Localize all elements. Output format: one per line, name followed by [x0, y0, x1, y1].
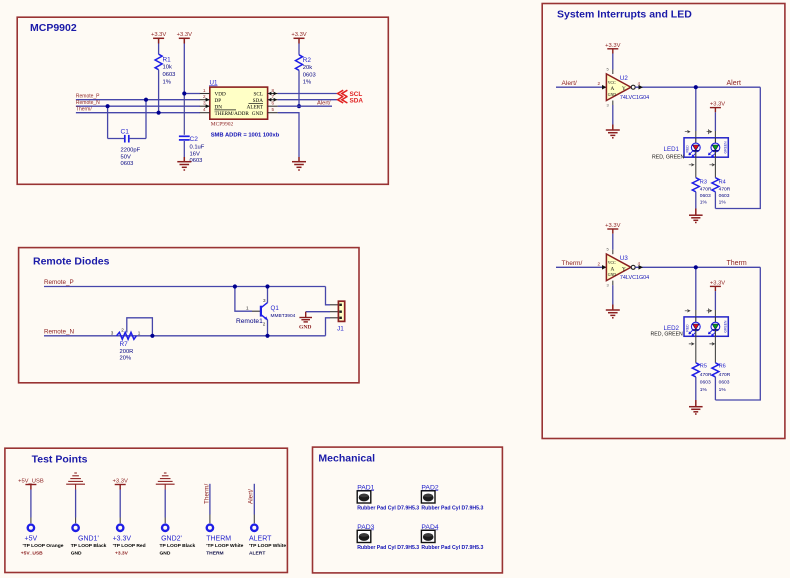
svg-text:+3.3V: +3.3V: [605, 43, 620, 49]
svg-text:GND: GND: [608, 93, 616, 97]
sheet Test Points box frame: [5, 448, 288, 572]
wire SCL: [278, 93, 338, 95]
test point ALERT: [251, 525, 257, 531]
wire TP5: [209, 484, 211, 515]
sheet MCP9902 box frame: [17, 17, 388, 184]
svg-text:0603: 0603: [700, 193, 711, 199]
junction Q1 collector-Remote_P: [265, 284, 269, 288]
svg-text:Y: Y: [622, 86, 626, 92]
junction Therm-LED2: [694, 265, 698, 269]
svg-text:+3.3V: +3.3V: [177, 32, 192, 38]
pin 2 lead: [200, 99, 210, 101]
power flag +3.3V (above U1 VDD / C2): [179, 38, 190, 43]
svg-text:2: 2: [121, 327, 124, 332]
svg-text:THERM: THERM: [206, 536, 231, 543]
svg-text:0603: 0603: [719, 379, 730, 385]
svg-text:VCC: VCC: [608, 81, 616, 85]
connector J1: [338, 301, 344, 321]
wire +3.3V to U2 VCC: [612, 54, 614, 70]
LED1 pin marks: [685, 129, 715, 166]
svg-text:A: A: [611, 86, 615, 92]
svg-text:R3: R3: [700, 179, 707, 185]
wire TP2: [75, 490, 77, 518]
svg-text:3: 3: [111, 330, 114, 335]
svg-text:Alert/: Alert/: [562, 80, 578, 87]
wire Remote_P: [44, 286, 326, 288]
wire pin5 GND: [278, 113, 299, 157]
inverter U2 74LVC1G04: [606, 74, 631, 101]
svg-text:20k: 20k: [303, 65, 312, 71]
junction VDD-3V3: [182, 91, 186, 95]
svg-text:GND: GND: [71, 551, 82, 557]
svg-text:SMB ADDR = 1001 100xb: SMB ADDR = 1001 100xb: [211, 132, 280, 138]
port SCL chevrons: [338, 90, 348, 97]
svg-text:+5V_USB: +5V_USB: [21, 551, 43, 557]
svg-text:50V: 50V: [121, 154, 131, 160]
svg-text:Alert/: Alert/: [317, 100, 331, 106]
test point THERM: [207, 525, 213, 531]
svg-text:0603: 0603: [719, 193, 730, 199]
LED2 RED,GREEN dual LED box: [684, 317, 728, 336]
junction R1-Therm: [157, 111, 161, 115]
ground (below U1 pin5): [292, 157, 306, 170]
pin 7 lead: [268, 99, 278, 101]
svg-text:Rubber Pad Cyl D7.9H5.3: Rubber Pad Cyl D7.9H5.3: [421, 505, 483, 511]
resistor R7 200R trimmer: [117, 332, 137, 339]
svg-text:TP LOOP Black: TP LOOP Black: [71, 543, 107, 549]
svg-text:GND: GND: [252, 111, 263, 117]
svg-text:470R: 470R: [719, 372, 731, 378]
resistor R6 470R: [714, 336, 716, 363]
test point +5V: [28, 525, 34, 531]
svg-text:LED1: LED1: [664, 146, 680, 153]
sheet Remote Diodes box frame: [19, 248, 359, 383]
port SDA chevrons: [338, 96, 348, 103]
svg-text:GND2': GND2': [161, 536, 182, 543]
svg-text:J1: J1: [337, 326, 344, 333]
wire U3 GND pin: [612, 281, 614, 286]
LED1 green element: [714, 138, 716, 144]
svg-text:Remote_N: Remote_N: [44, 328, 75, 335]
wire Therm/ to U1 pin4: [76, 112, 200, 114]
power flag GND earth (TP4): [156, 473, 175, 490]
LED1 RED,GREEN dual LED box: [684, 138, 728, 157]
wire +3.3V to U3 VCC: [612, 234, 614, 250]
svg-text:ALERT: ALERT: [249, 551, 265, 557]
svg-text:Mechanical: Mechanical: [318, 453, 375, 465]
svg-text:+3.3V: +3.3V: [151, 32, 166, 38]
svg-text:R2: R2: [303, 57, 312, 64]
svg-text:'TP LOOP White: 'TP LOOP White: [249, 543, 286, 549]
svg-text:+3.3V: +3.3V: [113, 536, 132, 543]
svg-text:2: 2: [598, 81, 601, 86]
svg-text:470R: 470R: [719, 186, 731, 192]
svg-text:74LVC1G04: 74LVC1G04: [620, 275, 649, 281]
IC U1 MCP9902 body: [210, 87, 268, 119]
svg-text:GND: GND: [299, 324, 311, 330]
svg-text:ALERT: ALERT: [249, 536, 272, 543]
svg-text:0603: 0603: [700, 379, 711, 385]
inverter U3 74LVC1G04: [606, 254, 631, 281]
svg-text:1%: 1%: [163, 79, 171, 85]
svg-text:TP LOOP Black: TP LOOP Black: [160, 543, 196, 549]
svg-text:16V: 16V: [190, 152, 200, 158]
pin 4 lead: [200, 112, 210, 114]
wire U3 output Therm: [635, 266, 760, 268]
wire TP4: [164, 490, 166, 518]
svg-text:Remote_N: Remote_N: [76, 100, 100, 106]
wire J1 pin2 to GND: [306, 311, 330, 313]
svg-text:C2: C2: [190, 136, 199, 143]
LED2 red element: [695, 317, 697, 323]
svg-text:470R: 470R: [700, 372, 712, 378]
svg-text:20%: 20%: [120, 356, 132, 362]
svg-text:U1: U1: [210, 80, 218, 87]
wire U2 GND pin: [612, 101, 614, 106]
resistor R4 470R: [714, 157, 716, 178]
wire TP1: [30, 490, 32, 518]
ground GND (J1 pin2): [299, 312, 312, 322]
svg-text:RED, GREEN: RED, GREEN: [651, 332, 684, 338]
test point GND2: [162, 525, 168, 531]
svg-text:0603: 0603: [121, 161, 134, 167]
svg-text:DN: DN: [215, 104, 223, 110]
pin 5 lead: [268, 112, 278, 114]
svg-text:SDA: SDA: [350, 97, 364, 104]
ground (below U2): [606, 125, 620, 138]
svg-text:R6: R6: [719, 364, 726, 370]
junction Alert-LED1: [694, 85, 698, 89]
wire Remote_N to U1 pin3: [76, 105, 200, 107]
wire Alert junction down to LED1: [695, 87, 697, 131]
capacitor C1 2200pF: [107, 106, 109, 138]
svg-text:Remote Diodes: Remote Diodes: [33, 256, 110, 268]
svg-text:4: 4: [638, 81, 641, 86]
svg-text:470R: 470R: [700, 186, 712, 192]
capacitor C2 0.1uF: [179, 135, 190, 137]
svg-text:1%: 1%: [700, 387, 708, 393]
ground (below R5): [689, 400, 703, 414]
svg-text:200R: 200R: [120, 349, 134, 355]
wire J1 pin1 to Remote_P: [326, 287, 331, 305]
power flag GND earth (TP2): [66, 473, 85, 490]
svg-text:R1: R1: [163, 57, 172, 64]
svg-text:A: A: [611, 266, 615, 272]
svg-text:RED: RED: [686, 324, 690, 332]
wire Remote_P to U1 pin2: [76, 99, 200, 101]
svg-text:0.1uF: 0.1uF: [190, 145, 205, 151]
svg-text:System Interrupts and LED: System Interrupts and LED: [557, 9, 692, 21]
junction Q1 emitter-Remote_N: [265, 334, 269, 338]
svg-text:2: 2: [203, 94, 206, 99]
wire right loop (Alert to R4): [715, 87, 760, 208]
ground (below C2): [177, 157, 191, 170]
resistor R3 470R: [695, 157, 697, 178]
svg-text:+3.3V: +3.3V: [291, 32, 306, 38]
svg-text:Therm: Therm: [727, 260, 747, 267]
svg-text:10k: 10k: [163, 65, 172, 71]
svg-text:4: 4: [203, 107, 206, 112]
wire TP6: [253, 484, 255, 515]
svg-text:Q1: Q1: [271, 305, 280, 312]
test point +3.3V: [117, 525, 123, 531]
svg-text:U2: U2: [620, 75, 628, 82]
svg-text:GND: GND: [608, 273, 616, 277]
svg-text:1%: 1%: [719, 387, 727, 393]
svg-text:C1: C1: [121, 129, 130, 136]
LED2 green element: [714, 317, 716, 323]
svg-text:0603: 0603: [303, 72, 316, 78]
svg-text:3: 3: [263, 298, 266, 303]
svg-text:RED, GREEN: RED, GREEN: [652, 155, 685, 161]
svg-text:GREEN: GREEN: [724, 141, 728, 154]
svg-text:GND: GND: [160, 551, 171, 557]
junction C1-Remote_P: [144, 98, 148, 102]
svg-text:'TP LOOP White: 'TP LOOP White: [206, 543, 243, 549]
wire Alert/ input: [556, 86, 606, 88]
svg-text:RED: RED: [686, 145, 690, 153]
wire +3.3V to U1 VDD: [183, 44, 185, 94]
svg-text:2200pF: 2200pF: [121, 148, 141, 154]
wire TP3: [119, 490, 121, 518]
svg-text:Remote_P: Remote_P: [44, 279, 74, 286]
svg-text:U3: U3: [620, 255, 628, 262]
svg-text:'TP LOOP Red: 'TP LOOP Red: [113, 543, 146, 549]
junction R7 wiper-Remote_N: [150, 334, 154, 338]
svg-text:+3.3V: +3.3V: [710, 102, 725, 108]
LED1 red element: [695, 138, 697, 144]
svg-text:6: 6: [272, 101, 275, 106]
svg-text:74LVC1G04: 74LVC1G04: [620, 95, 649, 101]
wire right loop (Therm to R6): [715, 267, 760, 400]
svg-text:VCC: VCC: [608, 261, 616, 265]
wire Remote_N: [44, 335, 326, 337]
svg-text:+3.3V: +3.3V: [115, 551, 129, 557]
svg-text:0603: 0603: [190, 158, 203, 164]
svg-text:GREEN: GREEN: [724, 320, 728, 333]
wire Remote_P to Q1 base: [235, 287, 252, 312]
resistor R2 20k: [298, 44, 300, 55]
junction Q1 base-Remote_P: [233, 284, 237, 288]
svg-text:ALERT: ALERT: [247, 104, 264, 110]
svg-text:Test Points: Test Points: [32, 454, 88, 466]
svg-text:R4: R4: [719, 179, 726, 185]
transistor Q1 MMBT3904: [260, 306, 262, 317]
svg-text:1: 1: [203, 88, 206, 93]
svg-text:2: 2: [598, 261, 601, 266]
pin 8 lead: [268, 93, 278, 95]
svg-text:+5V: +5V: [25, 536, 38, 543]
svg-text:'TP LOOP Orange: 'TP LOOP Orange: [23, 543, 64, 549]
svg-text:+5V_USB: +5V_USB: [18, 479, 44, 485]
svg-text:MCP9902: MCP9902: [211, 121, 234, 127]
svg-text:MMBT3904: MMBT3904: [271, 313, 296, 319]
svg-text:Remote_P: Remote_P: [76, 94, 100, 100]
svg-text:Alert/: Alert/: [248, 489, 255, 504]
svg-text:+3.3V: +3.3V: [710, 280, 725, 286]
svg-text:1%: 1%: [303, 79, 311, 85]
wire U2 output Alert: [635, 86, 760, 88]
junction R2-Alert: [297, 104, 301, 108]
svg-text:0603: 0603: [163, 72, 176, 78]
svg-text:1: 1: [138, 330, 141, 335]
svg-text:Therm/: Therm/: [562, 260, 583, 267]
svg-text:1: 1: [246, 306, 249, 311]
resistor R5 470R: [695, 336, 697, 363]
svg-text:Remote1: Remote1: [236, 318, 263, 325]
sheet System Interrupts and LED box frame: [542, 4, 785, 439]
svg-text:Rubber Pad Cyl D7.9H5.3: Rubber Pad Cyl D7.9H5.3: [357, 545, 419, 551]
svg-text:+3.3V: +3.3V: [605, 223, 620, 229]
svg-text:2: 2: [263, 322, 266, 327]
wire Therm junction down to LED2: [695, 267, 697, 310]
svg-text:SDA: SDA: [253, 98, 264, 104]
svg-text:VDD: VDD: [215, 92, 226, 98]
svg-text:MCP9902: MCP9902: [30, 22, 77, 34]
power flag +3.3V (above R2): [294, 38, 305, 43]
wire SDA: [278, 99, 338, 101]
svg-text:1%: 1%: [700, 200, 708, 206]
wire down to C2: [183, 94, 185, 135]
ground (below U3): [606, 305, 620, 318]
svg-text:Rubber Pad Cyl D7.9H5.3: Rubber Pad Cyl D7.9H5.3: [357, 505, 419, 511]
svg-text:+3.3V: +3.3V: [113, 479, 128, 485]
test point GND1: [72, 525, 78, 531]
svg-text:R5: R5: [700, 364, 707, 370]
junction C1-Remote_N: [106, 104, 110, 108]
svg-text:GND1': GND1': [78, 536, 99, 543]
wire Therm/ input: [556, 266, 606, 268]
svg-text:4: 4: [638, 261, 641, 266]
svg-text:Y: Y: [622, 266, 626, 272]
svg-text:THERM/ADDR: THERM/ADDR: [215, 111, 250, 117]
svg-text:DP: DP: [215, 98, 222, 104]
svg-text:R7: R7: [120, 341, 129, 348]
pin 3 lead: [200, 105, 210, 107]
LED2 pin marks: [685, 308, 715, 345]
svg-text:1%: 1%: [719, 200, 727, 206]
power flag +3.3V (above R1): [153, 38, 164, 43]
svg-text:THERM: THERM: [206, 551, 223, 557]
svg-text:5: 5: [272, 107, 275, 112]
pin 1 lead: [200, 93, 210, 95]
ground (below R3): [689, 209, 703, 223]
wire Alert/ from pin 6: [278, 105, 332, 107]
resistor R1 10k: [158, 44, 160, 55]
svg-text:Rubber Pad Cyl D7.9H5.3: Rubber Pad Cyl D7.9H5.3: [421, 545, 483, 551]
svg-text:Alert: Alert: [727, 80, 741, 87]
wire J1 pin3 to Remote_N: [326, 318, 331, 336]
svg-text:Therm/: Therm/: [76, 107, 92, 113]
sheet Mechanical box frame: [313, 447, 503, 573]
pin 6 lead: [268, 105, 278, 107]
svg-text:SCL: SCL: [253, 92, 263, 98]
svg-text:3: 3: [203, 101, 206, 106]
